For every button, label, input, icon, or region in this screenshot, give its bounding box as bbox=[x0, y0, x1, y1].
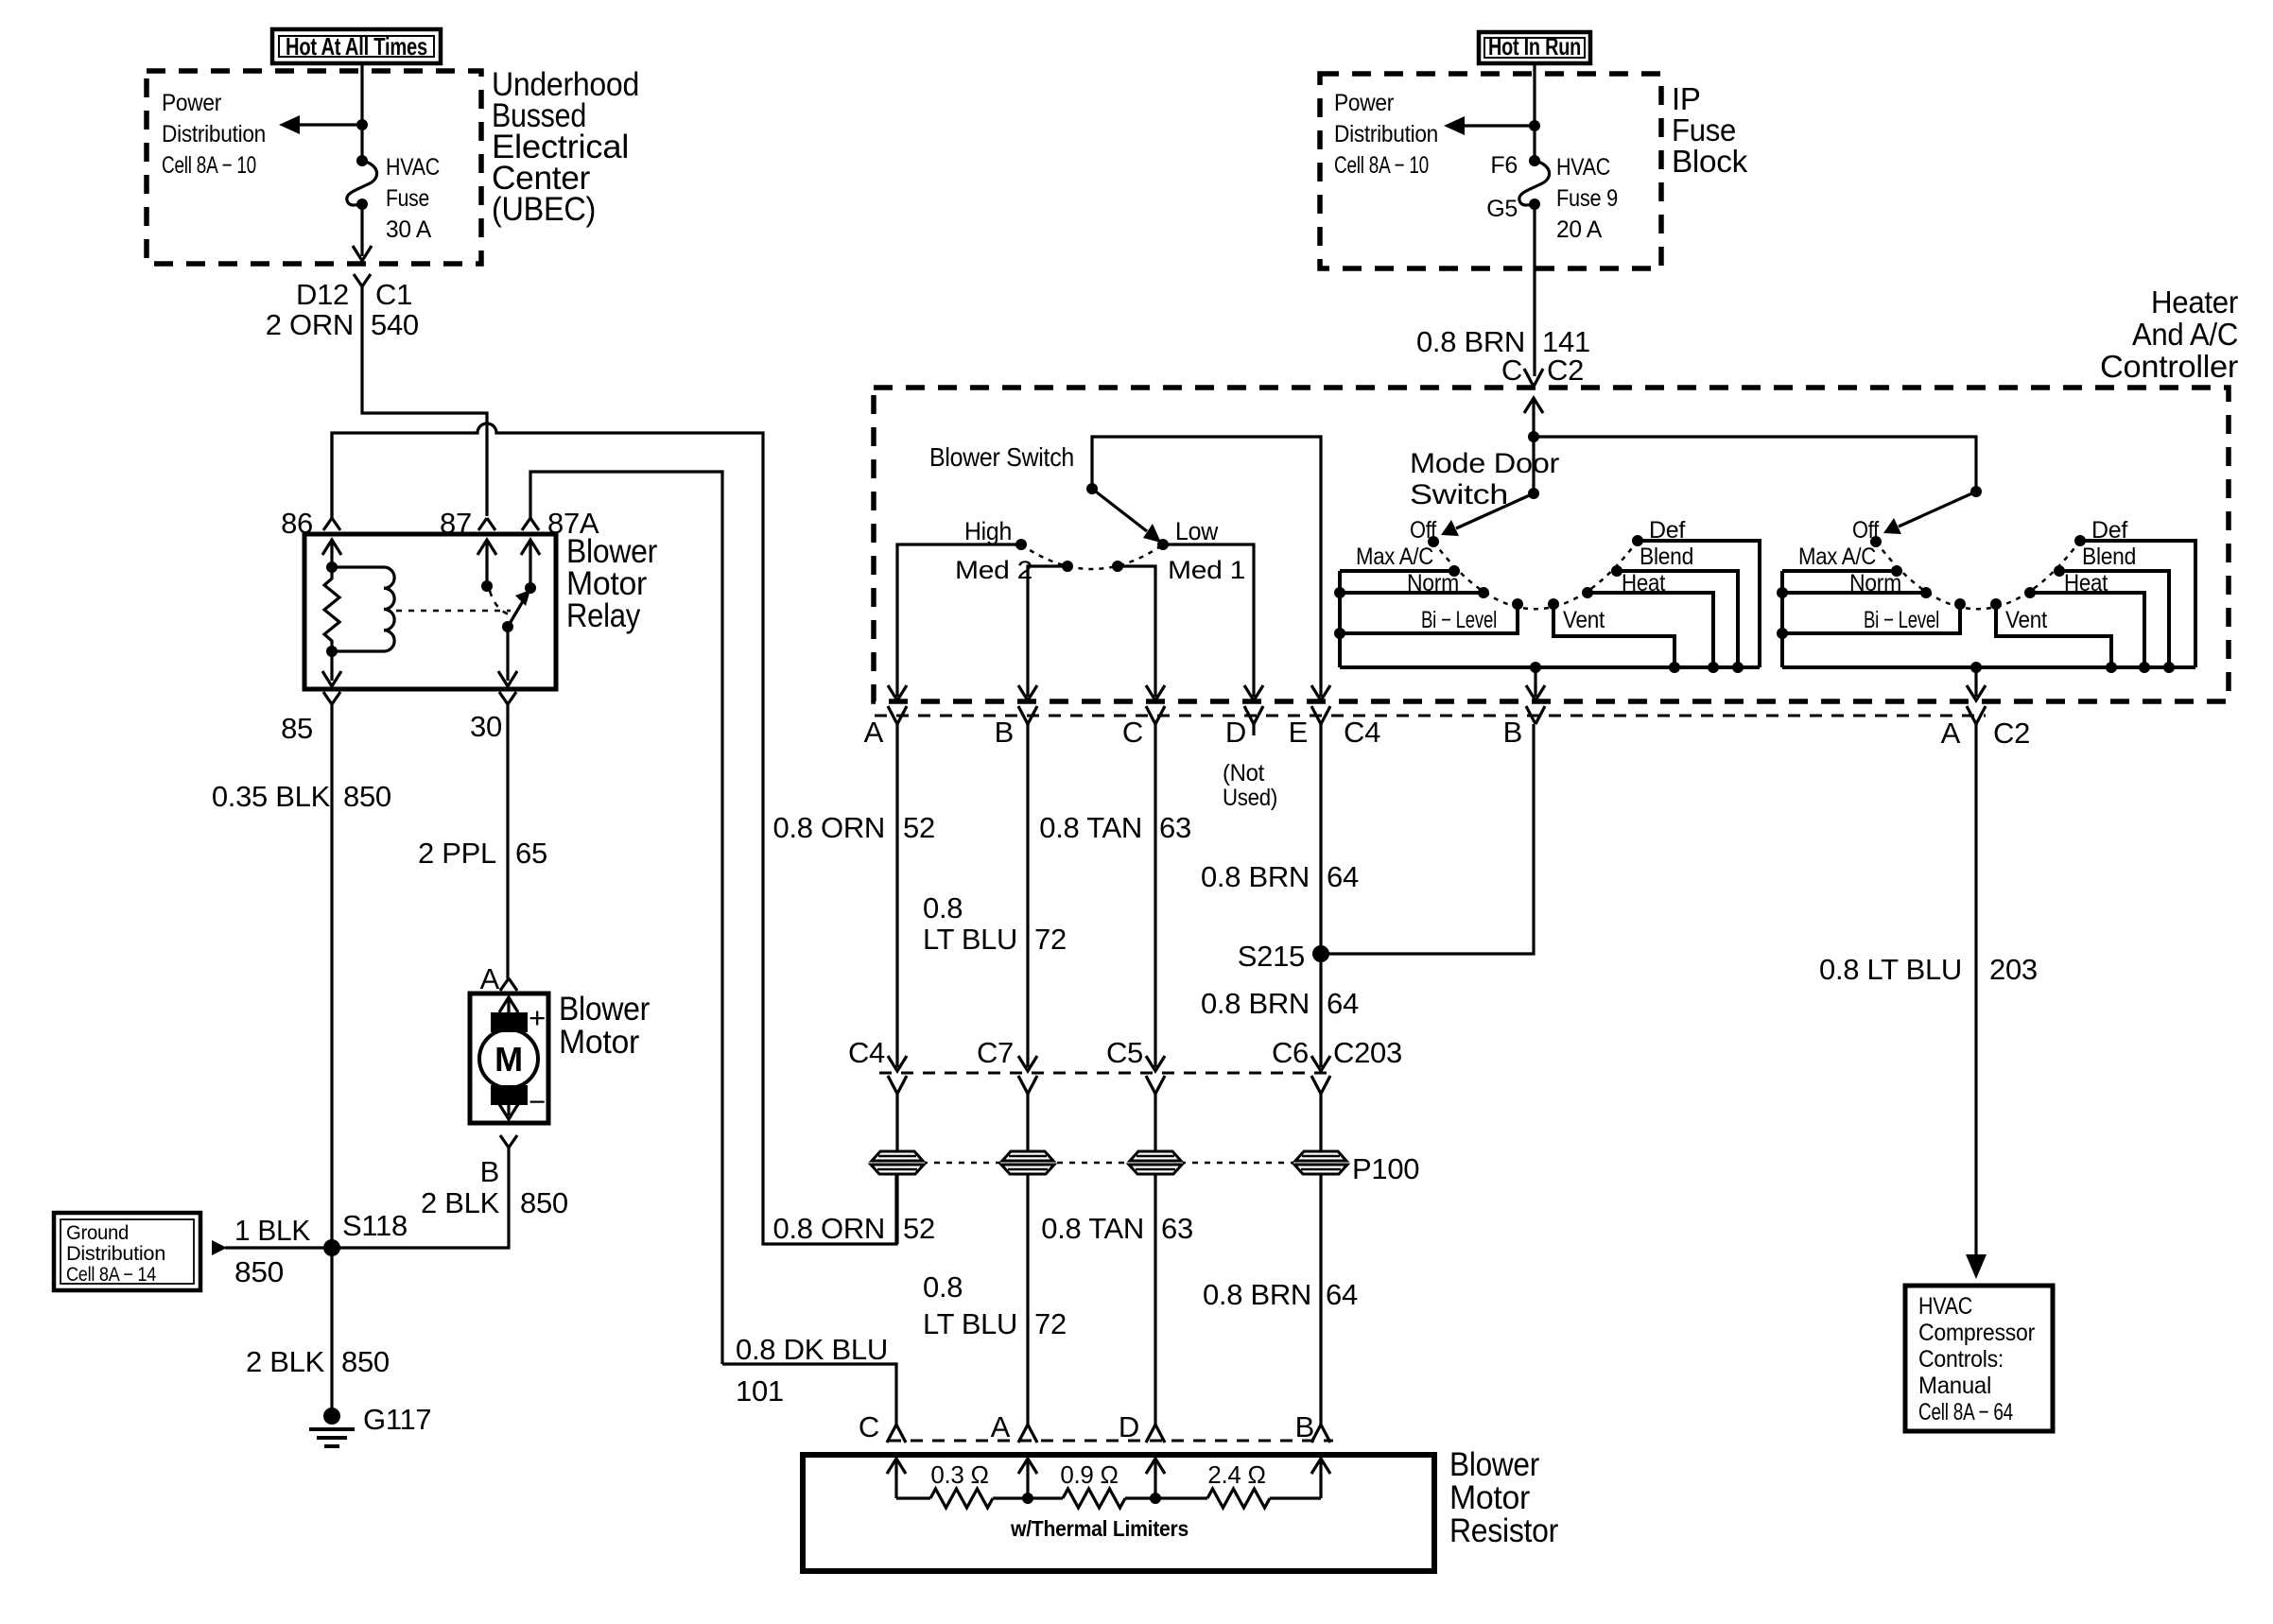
svg-text:87: 87 bbox=[440, 507, 472, 540]
node: feed junction bbox=[1528, 431, 1539, 442]
label box Ground Distribution Cell 8A-14 bbox=[54, 1213, 200, 1290]
svg-text:G117: G117 bbox=[363, 1403, 431, 1436]
svg-text:64: 64 bbox=[1327, 987, 1359, 1020]
svg-text:A: A bbox=[864, 716, 884, 749]
svg-text:30: 30 bbox=[470, 710, 502, 743]
node junction to Power Distribution (IP) bbox=[1529, 120, 1540, 131]
node: mode switch 1 bottom bus junctions bbox=[1530, 662, 1744, 673]
wire: mode switch 2 Def line bbox=[2080, 541, 2195, 667]
node S118 bbox=[323, 1209, 408, 1256]
svg-text:203: 203 bbox=[1989, 953, 2038, 986]
svg-text:D: D bbox=[1225, 716, 1246, 749]
svg-text:HVAC: HVAC bbox=[1918, 1293, 1972, 1320]
svg-text:Blend: Blend bbox=[2082, 544, 2136, 570]
motor pin A connector bbox=[480, 962, 517, 995]
svg-text:Distribution: Distribution bbox=[66, 1243, 165, 1265]
svg-text:And A/C: And A/C bbox=[2132, 317, 2238, 352]
svg-text:Cell 8A − 14: Cell 8A − 14 bbox=[66, 1264, 157, 1286]
label box Hot At All Times bbox=[272, 29, 441, 63]
svg-text:P100: P100 bbox=[1352, 1152, 1419, 1185]
svg-text:Med 2: Med 2 bbox=[955, 556, 1032, 584]
wire: mode switch 1 Heat line bbox=[1588, 593, 1713, 667]
pin labels row 1 bbox=[864, 716, 2030, 750]
mode switch 1 contacts bbox=[1428, 535, 1643, 610]
wire 0.8 LT BLU 203 from controller A/C2 bbox=[1974, 724, 1977, 1271]
wire: mode switch 1 left bus bbox=[1338, 571, 1342, 667]
wire label 0.8 BRN 141 bbox=[1416, 325, 1590, 358]
resistor connector row C A D B bbox=[859, 1410, 1314, 1443]
svg-text:0.8 DK BLU: 0.8 DK BLU bbox=[736, 1333, 888, 1366]
svg-text:87A: 87A bbox=[547, 507, 599, 540]
relay coil to pin85 arrow bbox=[322, 651, 341, 686]
svg-text:Fuse 9: Fuse 9 bbox=[1556, 185, 1618, 212]
svg-text:Hot At All Times: Hot At All Times bbox=[286, 32, 427, 60]
wire: 86 feed from ORN net, hops pin87 wire bbox=[332, 423, 896, 1244]
svg-text:0.9 Ω: 0.9 Ω bbox=[1060, 1460, 1118, 1489]
wire: mode switch 2 Blend line bbox=[2059, 571, 2169, 667]
svg-text:0.8 TAN: 0.8 TAN bbox=[1039, 811, 1142, 844]
svg-text:Bi − Level: Bi − Level bbox=[1864, 607, 1939, 633]
svg-text:Block: Block bbox=[1672, 144, 1748, 179]
svg-text:Ground: Ground bbox=[66, 1222, 129, 1244]
grommet P100 at wire E bbox=[1293, 1150, 1348, 1175]
svg-text:2.4 Ω: 2.4 Ω bbox=[1207, 1460, 1265, 1489]
motor internal arrows bbox=[499, 997, 518, 1119]
svg-text:High: High bbox=[964, 517, 1012, 545]
wires continuing below connector bbox=[895, 1094, 898, 1244]
svg-text:B: B bbox=[480, 1155, 499, 1188]
svg-text:Hot In Run: Hot In Run bbox=[1488, 32, 1581, 60]
blower switch arm bbox=[1092, 489, 1161, 543]
wire Med 2 to pin B bbox=[1028, 566, 1067, 697]
pin 85 bbox=[281, 692, 340, 745]
wire B: 0.8 LT BLU 72 bbox=[1026, 724, 1029, 1067]
svg-text:S118: S118 bbox=[342, 1209, 408, 1242]
svg-text:Power: Power bbox=[1334, 90, 1394, 116]
svg-text:0.8 BRN: 0.8 BRN bbox=[1201, 860, 1310, 893]
svg-text:2 PPL: 2 PPL bbox=[418, 837, 496, 870]
grommet P100 at wire A bbox=[870, 1150, 925, 1175]
UBEC dashed box bbox=[147, 71, 481, 264]
Mode Door Switch label bbox=[1410, 448, 1559, 510]
svg-text:C4: C4 bbox=[848, 1036, 885, 1069]
svg-text:C7: C7 bbox=[977, 1036, 1014, 1069]
wire 2 BLK 850 to G117 bbox=[246, 1345, 390, 1378]
connector forks row 1 bbox=[888, 706, 1986, 724]
mode switch 2 output A bbox=[1967, 667, 1986, 700]
svg-text:Blower: Blower bbox=[559, 991, 651, 1028]
relay switch contacts bbox=[481, 580, 536, 632]
svg-text:0.8: 0.8 bbox=[923, 1270, 963, 1304]
pin 86 bbox=[281, 433, 341, 567]
mode switch 1 contact arc dashed bbox=[1433, 541, 1638, 609]
relay linkage dashed bbox=[396, 610, 511, 613]
blower switch common node bbox=[1086, 483, 1098, 494]
svg-text:C1: C1 bbox=[375, 278, 412, 311]
connector row C4 C7 C5 C6/C203 bbox=[848, 1036, 1402, 1069]
connector C / C2 bbox=[1501, 354, 1584, 387]
svg-text:Fuse: Fuse bbox=[1672, 112, 1736, 147]
arrow to Power Distribution (IP) bbox=[1444, 116, 1535, 135]
svg-text:B: B bbox=[1295, 1410, 1314, 1443]
pin arrows at controller edge bbox=[888, 685, 1330, 700]
svg-text:Motor: Motor bbox=[559, 1024, 640, 1061]
wire: mode switch 2 Heat line bbox=[2030, 593, 2144, 667]
wire: mode switch 2 bottom bus bbox=[1782, 665, 2195, 669]
svg-text:540: 540 bbox=[371, 308, 419, 341]
Heater And A/C Controller dashed box bbox=[874, 388, 2229, 701]
svg-text:Off: Off bbox=[1852, 517, 1879, 544]
svg-text:D12: D12 bbox=[296, 278, 349, 311]
svg-text:Motor: Motor bbox=[1449, 1479, 1531, 1516]
svg-text:Vent: Vent bbox=[1563, 607, 1605, 633]
svg-text:850: 850 bbox=[234, 1255, 284, 1288]
svg-text:72: 72 bbox=[1034, 1307, 1067, 1340]
node: mode switch 2 left bus junctions bbox=[1777, 587, 1788, 639]
P100 grommet dashed line bbox=[897, 1162, 1321, 1165]
svg-text:0.8 ORN: 0.8 ORN bbox=[773, 1212, 886, 1245]
svg-text:64: 64 bbox=[1326, 1278, 1358, 1311]
svg-text:A: A bbox=[480, 962, 500, 995]
wire junction to switch 2 common bbox=[1534, 437, 1976, 492]
svg-text:D: D bbox=[1119, 1410, 1139, 1443]
wire 1 BLK 850 with arrow bbox=[212, 1240, 332, 1255]
svg-text:Max A/C: Max A/C bbox=[1356, 544, 1433, 570]
UBEC label bbox=[492, 66, 639, 228]
svg-text:(UBEC): (UBEC) bbox=[492, 191, 596, 228]
pin 87A bbox=[521, 507, 599, 588]
wire 2 PPL 65 (pin 30 to motor A) bbox=[506, 704, 509, 978]
svg-text:C5: C5 bbox=[1106, 1036, 1143, 1069]
mode switch 2 contacts bbox=[1870, 535, 2086, 610]
svg-text:Low: Low bbox=[1175, 517, 1219, 545]
svg-text:0.8 TAN: 0.8 TAN bbox=[1041, 1212, 1144, 1245]
connector D12 / C1 bbox=[296, 274, 412, 311]
svg-text:B: B bbox=[1503, 716, 1522, 749]
svg-text:Cell 8A − 64: Cell 8A − 64 bbox=[1918, 1399, 2013, 1425]
resistor internal arrows bbox=[887, 1459, 1330, 1498]
resistor element 0.3 ohm bbox=[896, 1460, 1028, 1508]
svg-text:E: E bbox=[1289, 716, 1308, 749]
wire fuse to D12 pin, arrow at UBEC edge bbox=[353, 204, 372, 261]
wire fuse to C2 connector bbox=[1533, 204, 1536, 376]
svg-text:A: A bbox=[991, 1410, 1011, 1443]
svg-text:Cell 8A − 10: Cell 8A − 10 bbox=[162, 152, 256, 179]
svg-text:Bi − Level: Bi − Level bbox=[1421, 607, 1497, 633]
svg-text:(Not: (Not bbox=[1223, 760, 1264, 786]
svg-text:w/Thermal Limiters: w/Thermal Limiters bbox=[1010, 1516, 1189, 1541]
svg-text:Off: Off bbox=[1410, 517, 1436, 544]
svg-text:30 A: 30 A bbox=[386, 216, 432, 243]
wire: 2 ORN 540 from C1 down, right, down to relay pin 87 bbox=[362, 286, 487, 516]
mode switch 1 feed: C2 pin C down, junction, common bbox=[1524, 398, 1543, 493]
mode switch 1 contact labels bbox=[1356, 517, 1693, 633]
svg-text:85: 85 bbox=[281, 712, 313, 745]
svg-text:Heater: Heater bbox=[2151, 285, 2238, 320]
resistor element 0.9 ohm bbox=[1028, 1460, 1155, 1508]
mode switch 1 output B bbox=[1526, 667, 1545, 700]
svg-text:C: C bbox=[1122, 716, 1143, 749]
svg-text:65: 65 bbox=[515, 837, 547, 870]
svg-text:Blower Switch: Blower Switch bbox=[929, 442, 1074, 472]
svg-text:2 BLK: 2 BLK bbox=[421, 1186, 500, 1219]
svg-text:86: 86 bbox=[281, 507, 313, 540]
svg-text:Compressor: Compressor bbox=[1918, 1320, 2035, 1346]
svg-text:850: 850 bbox=[343, 780, 391, 813]
svg-text:LT BLU: LT BLU bbox=[923, 923, 1017, 956]
connector row dashed line bbox=[875, 715, 1986, 717]
grommet P100 at wire B bbox=[1000, 1150, 1055, 1175]
svg-text:52: 52 bbox=[903, 1212, 935, 1245]
pin 30 bbox=[470, 692, 516, 743]
svg-text:0.8 BRN: 0.8 BRN bbox=[1201, 987, 1310, 1020]
svg-text:Med 1: Med 1 bbox=[1168, 556, 1245, 584]
svg-text:52: 52 bbox=[903, 811, 935, 844]
svg-text:C203: C203 bbox=[1333, 1036, 1402, 1069]
svg-text:0.8: 0.8 bbox=[923, 891, 963, 924]
blower switch common feed from pin E bbox=[1092, 437, 1321, 697]
label box HVAC Compressor Controls bbox=[1905, 1286, 2053, 1431]
wire E: 0.8 BRN 64 bbox=[1319, 724, 1322, 1067]
wire: mode switch 1 Bi-Level line bbox=[1340, 604, 1518, 633]
resistor box bbox=[803, 1455, 1434, 1571]
lower wire labels bbox=[773, 1212, 935, 1245]
relay common to pin30 arrow bbox=[498, 627, 517, 686]
wire: mode switch 1 Max A/C line bbox=[1340, 569, 1454, 573]
node: mode switch 2 bottom bus junctions bbox=[1970, 662, 2175, 673]
blower motor box bbox=[470, 993, 548, 1123]
svg-text:72: 72 bbox=[1034, 923, 1067, 956]
svg-text:Controller: Controller bbox=[2100, 349, 2238, 384]
wire: controller B pin to S215 bbox=[1321, 724, 1534, 954]
Power Distribution Cell 8A-10 label (UBEC) bbox=[162, 90, 266, 179]
wire: mode switch 1 Norm line bbox=[1340, 591, 1484, 595]
svg-text:Power: Power bbox=[162, 90, 221, 116]
fuse HVAC Fuse 9 20 A bbox=[1486, 152, 1618, 243]
pin D stub (not used) bbox=[1252, 724, 1255, 735]
svg-text:HVAC: HVAC bbox=[1556, 154, 1610, 181]
wire 0.8 DK BLU 101 bbox=[722, 1364, 896, 1425]
svg-text:HVAC: HVAC bbox=[386, 154, 440, 181]
svg-text:G5: G5 bbox=[1486, 196, 1518, 222]
fuse HVAC Fuse 30 A bbox=[347, 154, 440, 243]
wire: mode switch 1 Vent line bbox=[1553, 604, 1674, 667]
svg-text:Controls:: Controls: bbox=[1918, 1346, 2004, 1373]
wire C: 0.8 TAN 63 bbox=[1154, 724, 1156, 1067]
IP Fuse Block dashed box bbox=[1320, 74, 1661, 268]
arrow into HVAC Compressor Controls bbox=[1966, 1254, 1987, 1279]
relay coil bbox=[332, 567, 394, 651]
motor pin B connector bbox=[480, 1135, 517, 1188]
svg-text:101: 101 bbox=[736, 1374, 784, 1408]
svg-text:Max A/C: Max A/C bbox=[1798, 544, 1876, 570]
svg-text:2 ORN: 2 ORN bbox=[266, 308, 354, 341]
svg-text:2 BLK: 2 BLK bbox=[246, 1345, 325, 1378]
wire: mode switch 1 Blend line bbox=[1617, 571, 1738, 667]
svg-text:Switch: Switch bbox=[1410, 479, 1508, 510]
node: mode switch 1 left bus junctions bbox=[1334, 587, 1345, 639]
Power Distribution Cell 8A-10 label (IP) bbox=[1334, 90, 1438, 179]
wire: mode switch 2 Bi-Level line bbox=[1782, 604, 1960, 633]
svg-text:Blower: Blower bbox=[1449, 1446, 1540, 1483]
mode switch 2 arm bbox=[1883, 492, 1976, 534]
svg-text:0.35 BLK: 0.35 BLK bbox=[212, 780, 331, 813]
svg-text:−: − bbox=[529, 1085, 546, 1118]
svg-text:Mode Door: Mode Door bbox=[1410, 448, 1559, 479]
blower switch contacts bbox=[1015, 539, 1169, 572]
svg-text:Manual: Manual bbox=[1918, 1373, 1991, 1399]
svg-text:0.8 ORN: 0.8 ORN bbox=[773, 811, 886, 844]
svg-text:850: 850 bbox=[341, 1345, 390, 1378]
wire A: 0.8 ORN 52 bbox=[895, 724, 898, 1067]
wire Med 1 to pin C bbox=[1118, 566, 1155, 697]
svg-text:F6: F6 bbox=[1490, 152, 1518, 179]
resistor element 2.4 ohm bbox=[1155, 1460, 1321, 1508]
label box Hot In Run bbox=[1479, 32, 1590, 63]
svg-text:C6: C6 bbox=[1272, 1036, 1309, 1069]
wire arrow to Power Distribution bbox=[279, 115, 362, 134]
wire: mode switch 2 Norm line bbox=[1782, 591, 1926, 595]
wire: mode switch 1 bottom bus bbox=[1340, 665, 1760, 669]
wire: mode switch 2 Vent line bbox=[1996, 604, 2111, 667]
wire: mode switch 2 left bus bbox=[1780, 571, 1784, 667]
svg-text:C2: C2 bbox=[1547, 354, 1584, 387]
svg-text:Resistor: Resistor bbox=[1449, 1512, 1559, 1549]
svg-text:850: 850 bbox=[520, 1186, 568, 1219]
svg-text:64: 64 bbox=[1327, 860, 1359, 893]
wire: mode switch 2 Max A/C line bbox=[1782, 569, 1897, 573]
wire: Hot At All Times feed into UBEC bbox=[360, 62, 363, 159]
svg-text:+: + bbox=[529, 1001, 546, 1034]
svg-text:0.8 LT BLU: 0.8 LT BLU bbox=[1819, 953, 1962, 986]
wire: 87A up and over, down to 0.8 DK BLU bbox=[530, 472, 722, 1364]
svg-text:0.8 BRN: 0.8 BRN bbox=[1203, 1278, 1311, 1311]
wire 2 BLK 850 motor B to S118 bbox=[332, 1148, 509, 1248]
relay switch arm bbox=[508, 590, 530, 627]
svg-text:S215: S215 bbox=[1238, 940, 1305, 973]
svg-text:63: 63 bbox=[1161, 1212, 1193, 1245]
node S215 bbox=[1238, 940, 1329, 973]
grommet P100 at wire C bbox=[1128, 1150, 1183, 1175]
motor brushes bbox=[491, 1012, 528, 1032]
svg-text:M: M bbox=[495, 1040, 523, 1079]
relay coil resistor bbox=[324, 561, 339, 657]
svg-text:Distribution: Distribution bbox=[162, 121, 266, 147]
svg-text:Vent: Vent bbox=[2005, 607, 2047, 633]
motor circle M bbox=[479, 1029, 538, 1088]
wire: mode switch 1 Def line bbox=[1638, 541, 1760, 667]
mode switch 1 arm bbox=[1441, 493, 1534, 536]
svg-text:Blend: Blend bbox=[1640, 544, 1693, 570]
mode switch 2 common bbox=[1970, 486, 1982, 497]
relay: Blower Motor Relay box bbox=[304, 534, 556, 689]
svg-text:C2: C2 bbox=[1993, 717, 2030, 750]
blower switch contact labels bbox=[955, 517, 1245, 584]
mode switch 2 contact arc dashed bbox=[1876, 541, 2080, 609]
pin 87 bbox=[440, 507, 496, 586]
blower switch contact arc dashed bbox=[1021, 544, 1163, 569]
node: junction to Power Distribution bbox=[356, 119, 368, 130]
wire Low to pin D bbox=[1163, 544, 1254, 697]
svg-text:Fuse: Fuse bbox=[386, 185, 429, 212]
mode switch 1 common bbox=[1528, 488, 1539, 499]
(Not Used) label bbox=[1223, 760, 1277, 811]
svg-text:LT BLU: LT BLU bbox=[923, 1307, 1017, 1340]
svg-text:63: 63 bbox=[1159, 811, 1191, 844]
svg-text:C: C bbox=[859, 1410, 879, 1443]
svg-text:C4: C4 bbox=[1344, 716, 1380, 749]
wire label 2 ORN 540 bbox=[266, 308, 419, 341]
svg-text:Used): Used) bbox=[1223, 785, 1277, 811]
motor terminals + - bbox=[529, 1001, 546, 1118]
svg-text:Distribution: Distribution bbox=[1334, 121, 1438, 147]
svg-text:20 A: 20 A bbox=[1556, 216, 1603, 243]
svg-text:Cell 8A − 10: Cell 8A − 10 bbox=[1334, 152, 1429, 179]
ground G117 bbox=[309, 1403, 431, 1446]
svg-text:B: B bbox=[995, 716, 1014, 749]
resistor bus junction dots bbox=[1022, 1493, 1161, 1504]
svg-text:IP: IP bbox=[1672, 81, 1701, 116]
wire 0.35 BLK 850 (pin 85 down to S118, G117) bbox=[330, 704, 333, 1416]
mode switch 2 contact labels bbox=[1798, 517, 2136, 633]
wire Hot In Run into fuse block bbox=[1533, 63, 1536, 161]
svg-text:A: A bbox=[1941, 717, 1961, 750]
wire High to pin A bbox=[897, 544, 1021, 697]
svg-text:1 BLK: 1 BLK bbox=[234, 1214, 311, 1247]
svg-text:C: C bbox=[1501, 354, 1522, 387]
svg-text:0.3 Ω: 0.3 Ω bbox=[930, 1460, 988, 1489]
relay contact arc dashed bbox=[490, 591, 512, 615]
svg-text:Relay: Relay bbox=[566, 597, 641, 634]
